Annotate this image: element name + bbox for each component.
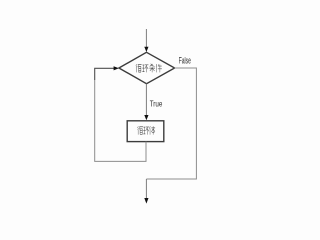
char 体 bbox=[150, 126, 156, 134]
wire: entry line into diamond top bbox=[144, 29, 148, 52]
char 循 bbox=[138, 126, 143, 134]
char 环 bbox=[142, 65, 148, 73]
wire: loop-back from rect bottom, left, up, into diamond left with arrow bbox=[95, 66, 146, 161]
decision diamond: 循环条件 (loop condition) bbox=[119, 52, 175, 83]
svg-text:True: True bbox=[150, 99, 163, 108]
wire: false path right, down, left bbox=[146, 68, 196, 179]
char 环 bbox=[143, 127, 149, 135]
wire: exit segment with arrow bbox=[144, 179, 148, 204]
label 循环条件 inside diamond bbox=[136, 64, 162, 72]
char 循 bbox=[136, 64, 142, 72]
char 件 bbox=[156, 64, 162, 72]
wire: diamond bottom to rectangle with arrow bbox=[144, 84, 148, 121]
svg-text:False: False bbox=[179, 56, 191, 66]
char 条 bbox=[149, 64, 155, 72]
label 循环体 inside rectangle bbox=[138, 126, 156, 134]
process rectangle: 循环体 (loop body) bbox=[127, 121, 164, 142]
